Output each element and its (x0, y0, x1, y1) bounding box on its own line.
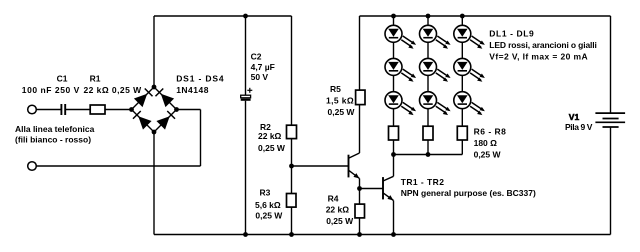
capacitor C1 (61, 104, 65, 115)
label DS1 - DS4 (176, 74, 224, 84)
value R6R8 line2 (474, 149, 502, 159)
node junction TR1 emitter TR2 base (357, 186, 362, 191)
value C2 line1 (251, 62, 275, 72)
label C1 (57, 74, 68, 84)
wire LED column 3 (461, 16, 463, 126)
value R3 line2 (255, 211, 283, 221)
capacitor C2 polarized (241, 88, 253, 100)
node junction C2 top rail (243, 14, 248, 19)
wire TR1 emitter to TR2 base (360, 188, 384, 190)
svg-text:0,25 W: 0,25 W (258, 143, 286, 153)
label C2 (251, 52, 262, 62)
value Pila 9 V (565, 122, 593, 132)
svg-text:R5: R5 (330, 84, 341, 94)
node junction R4 ground (357, 232, 362, 237)
value R6R8 line1 (474, 138, 498, 148)
wire top rail down to R2 (291, 16, 293, 125)
svg-text:(fili bianco - rosso): (fili bianco - rosso) (15, 135, 91, 145)
wire TR2 emitter to ground rail (393, 201, 395, 235)
svg-text:100 nF 250 V: 100 nF 250 V (22, 85, 80, 95)
resistor R6 (389, 126, 399, 140)
svg-text:LED rossi, arancioni o gialli: LED rossi, arancioni o gialli (489, 40, 596, 50)
LED DL7 (385, 92, 416, 115)
node junction LED col3 top (460, 14, 465, 19)
wire C2 bottom to ground rail (245, 101, 247, 235)
resistor R7 (423, 126, 433, 140)
svg-text:180 Ω: 180 Ω (474, 138, 498, 148)
transistor TR2 (383, 176, 394, 200)
LED DL4 (385, 58, 416, 81)
svg-text:NPN general purpose (es. BC337: NPN general purpose (es. BC337) (401, 188, 536, 198)
transistor TR1 (349, 153, 360, 179)
node junction C2 ground (243, 232, 248, 237)
value R4 line1 (326, 205, 350, 215)
diode DS bridge bottom-left (133, 111, 152, 130)
svg-text:50 V: 50 V (251, 72, 269, 82)
svg-text:Vf=2 V, If max = 20 mA: Vf=2 V, If max = 20 mA (489, 52, 588, 62)
diode DS bridge top-right (155, 88, 174, 107)
LED DL6 (454, 58, 485, 81)
svg-text:V1: V1 (569, 112, 580, 122)
node bridge top (152, 85, 157, 90)
LED DL3 (454, 25, 485, 48)
LED DL9 (454, 92, 485, 115)
svg-text:0,25 W: 0,25 W (326, 216, 354, 226)
value R3 line1 (255, 200, 281, 210)
svg-text:R4: R4 (328, 193, 339, 203)
wire battery bottom to ground rail (610, 127, 612, 235)
resistor R4 (355, 204, 365, 218)
wire R3 to ground rail (291, 207, 293, 234)
value R2 line1 (258, 131, 282, 141)
svg-text:22 kΩ 0,25 W: 22 kΩ 0,25 W (84, 85, 143, 95)
LED DL1 (385, 25, 416, 48)
value LED line1 (489, 40, 596, 50)
wire TR1 collector to R5 (359, 105, 361, 153)
wire DC+ top rail (154, 15, 292, 17)
wire battery+ top rail (360, 15, 611, 17)
value R2 line2 (258, 143, 286, 153)
wire bridge bottom down to ground rail (153, 132, 155, 235)
wire upper terminal to C1 (36, 109, 61, 111)
diode DS bridge top-left (134, 88, 153, 107)
svg-text:R1: R1 (90, 74, 101, 84)
label TR1 - TR2 (401, 177, 445, 187)
label V1 (569, 112, 580, 122)
label R1 (90, 74, 101, 84)
svg-text:1,5 kΩ: 1,5 kΩ (326, 96, 354, 106)
label R3 (260, 187, 271, 197)
label terminals line1 (15, 124, 95, 134)
battery V1 (595, 113, 625, 127)
node junction R3 ground (289, 232, 294, 237)
svg-text:4,7 µF: 4,7 µF (251, 62, 275, 72)
svg-text:C1: C1 (57, 74, 68, 84)
value C2 line2 (251, 72, 269, 82)
node junction LED col2 top (426, 14, 431, 19)
wire C1 to R1 (65, 109, 90, 111)
label R5 (330, 84, 341, 94)
wire battery top (610, 16, 612, 113)
svg-text:Alla linea telefonica: Alla linea telefonica (15, 124, 95, 134)
LED DL8 (420, 92, 451, 115)
LED DL5 (420, 58, 451, 81)
wire lower terminal to bridge right node (36, 110, 200, 167)
wire R2 to R3 (291, 139, 293, 194)
svg-text:0,25 W: 0,25 W (255, 211, 283, 221)
value R1 (84, 85, 143, 95)
node junction LED col1 top (391, 14, 396, 19)
node junction rail col1 (391, 152, 396, 157)
wire R8 to LED return rail (461, 140, 463, 155)
svg-text:0,25 W: 0,25 W (474, 149, 502, 159)
label R4 (328, 193, 339, 203)
wire bridge diamond (132, 87, 177, 132)
wire LED return rail (394, 154, 463, 156)
wire R7 to LED return rail (427, 140, 429, 155)
wire R1 to bridge left node (105, 109, 132, 111)
value C1 (22, 85, 80, 95)
node junction rail col2 (426, 152, 431, 157)
value R4 line2 (326, 216, 354, 226)
value R5 line2 (328, 107, 356, 117)
LED DL2 (420, 25, 451, 48)
svg-text:22 kΩ: 22 kΩ (326, 205, 350, 215)
label DL1 - DL9 (489, 28, 534, 38)
label R2 (260, 122, 271, 132)
wire to TR1 base (292, 165, 349, 167)
node bridge right (174, 107, 179, 112)
svg-text:5,6 kΩ: 5,6 kΩ (255, 200, 281, 210)
value LED line2 (489, 52, 588, 62)
wire C2 top branch (245, 16, 247, 95)
node: telephone line terminal upper (28, 105, 37, 114)
wire TR2 collector up to LED return rail (393, 155, 395, 177)
svg-text:TR1 - TR2: TR1 - TR2 (401, 177, 445, 187)
wire TR1 emitter down to R4 (359, 179, 361, 205)
value R5 line1 (326, 96, 354, 106)
label terminals line2 (15, 135, 91, 145)
svg-text:R6 - R8: R6 - R8 (474, 127, 507, 137)
resistor R8 (457, 126, 467, 140)
svg-text:C2: C2 (251, 52, 262, 62)
wire ground bottom rail (154, 234, 611, 236)
resistor R3 (287, 194, 297, 208)
value TR type (401, 188, 536, 198)
wire R4 to ground rail (359, 218, 361, 235)
resistor R1 (90, 105, 105, 114)
wire bridge top to DC+ rail (153, 16, 155, 87)
svg-text:1N4148: 1N4148 (176, 85, 209, 95)
svg-text:R3: R3 (260, 187, 271, 197)
svg-text:DL1 - DL9: DL1 - DL9 (489, 28, 534, 38)
node junction R2 R3 TR1 base (289, 164, 294, 169)
svg-text:Pila 9 V: Pila 9 V (565, 122, 593, 132)
node: telephone line terminal lower (28, 162, 37, 171)
svg-text:DS1 - DS4: DS1 - DS4 (176, 74, 224, 84)
wire LED column 2 (427, 16, 429, 126)
value 1N4148 (176, 85, 209, 95)
wire R5 to battery+ rail (359, 16, 361, 90)
svg-text:22 kΩ: 22 kΩ (258, 131, 282, 141)
resistor R5 (356, 90, 365, 105)
diode DS bridge bottom-right (156, 111, 175, 130)
label R6 - R8 (474, 127, 507, 137)
node junction TR2 emitter ground (391, 232, 396, 237)
resistor R2 (287, 125, 297, 138)
wire LED column 1 (393, 16, 395, 126)
wire R6 to LED return rail (393, 140, 395, 155)
node bridge bottom (152, 130, 157, 135)
svg-text:0,25 W: 0,25 W (328, 107, 356, 117)
node bridge left (129, 107, 134, 112)
